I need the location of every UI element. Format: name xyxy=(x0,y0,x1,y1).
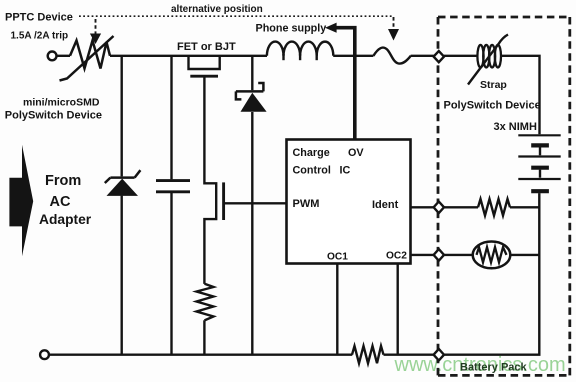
svg-text:PolySwitch Device: PolySwitch Device xyxy=(5,110,102,122)
svg-text:Strap: Strap xyxy=(480,79,507,91)
svg-text:Phone supply: Phone supply xyxy=(256,23,327,35)
svg-text:1.5A /2A trip: 1.5A /2A trip xyxy=(11,31,69,42)
svg-text:mini/microSMD: mini/microSMD xyxy=(23,97,100,109)
svg-text:Control: Control xyxy=(293,165,331,177)
svg-text:FET or BJT: FET or BJT xyxy=(177,41,236,53)
svg-text:Adapter: Adapter xyxy=(39,212,92,227)
svg-text:Charge: Charge xyxy=(293,147,330,159)
svg-text:PWM: PWM xyxy=(293,198,320,210)
svg-text:AC: AC xyxy=(50,194,71,210)
svg-text:OC1: OC1 xyxy=(327,252,348,263)
svg-text:IC: IC xyxy=(340,165,351,177)
svg-text:3x NIMH: 3x NIMH xyxy=(494,121,537,133)
svg-text:PPTC Device: PPTC Device xyxy=(5,12,73,24)
svg-text:OC2: OC2 xyxy=(386,251,407,262)
svg-text:From: From xyxy=(45,173,81,189)
svg-text:OV: OV xyxy=(348,147,364,159)
svg-text:alternative position: alternative position xyxy=(171,4,263,15)
svg-text:Ident: Ident xyxy=(372,199,399,211)
svg-text:Battery Pack: Battery Pack xyxy=(460,362,528,374)
svg-text:PolySwitch Device: PolySwitch Device xyxy=(444,100,541,112)
